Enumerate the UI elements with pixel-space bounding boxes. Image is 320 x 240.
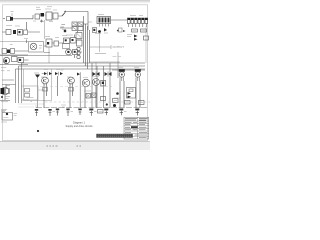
title text row5 marks [125,129,146,131]
resistor R21 [117,28,126,32]
capacitor C11 [11,49,15,54]
resistor R15 [43,88,48,92]
resistor R16 [69,88,74,92]
resistor R17 [6,30,11,35]
relay K1 box [29,42,44,53]
label text [95,32,108,35]
svg-text:Supply and drive circuits: Supply and drive circuits [65,125,93,128]
wire [117,52,119,70]
label text dash [6,85,10,87]
label R1 text [11,12,14,17]
label text below [1,121,7,123]
transistor TR9 [82,79,90,87]
label text [36,9,57,10]
diode D16 [128,96,132,99]
transistor TR6 [1,87,9,95]
title text row4 marks [125,126,147,128]
node J1 [98,30,101,33]
node J2 [113,104,116,107]
wire bus line 2 [19,65,146,67]
title block frame [124,117,149,139]
label P2 [53,111,56,113]
connector CN4 pin 4 [138,18,141,24]
capacitor C10 [76,33,82,39]
wire [99,33,101,52]
wire [66,11,88,13]
label text [33,20,53,23]
transistor TR11 [101,80,106,86]
wire transistor legs [44,76,96,108]
node J5 [37,130,39,132]
wire dashed mid rail [40,86,112,88]
capacitor C2 [53,13,58,19]
diode pair D20 [93,72,100,77]
connector CN4 pin 2 [131,18,134,24]
label K3 [134,66,139,68]
connector CN2 [77,40,83,46]
node arrow [62,13,65,17]
resistor R20 [93,28,97,33]
battery B1 box [2,113,13,121]
diode D17 [40,20,43,23]
label text [127,35,132,37]
title text row2 [125,121,147,123]
capacitor C1 [35,14,40,19]
pin hatch [100,24,109,27]
transistor TR10 [93,79,100,86]
label text [1,110,6,112]
label text [1,110,7,112]
capacitor C8 [129,89,133,92]
resistor R14 [98,110,104,114]
label row1 extra [36,6,52,8]
diode D14 [77,72,80,76]
wire right horizontal [112,70,145,78]
wire [18,104,44,107]
wire bottom rail [36,107,148,109]
label text [24,38,28,40]
resistor R5 [132,29,138,32]
transformer T1 [46,12,52,20]
diode D3 [18,58,24,63]
net label text [113,56,122,58]
title text row3 [125,124,145,126]
resistor R19 [71,38,77,44]
svg-text:Diagram 1: Diagram 1 [73,121,86,125]
capacitor C7 [92,93,97,98]
label K2 [118,66,123,68]
diode D12 [42,72,52,76]
label text [84,90,91,92]
wire bus line 3 [16,68,146,70]
label P4 [71,111,74,113]
resistor R6 [141,29,147,32]
label text [4,114,18,118]
label text [44,69,64,72]
capacitor C9 [18,30,23,36]
wire [2,80,16,85]
label TR8 [67,76,71,78]
label text [1,68,10,71]
node J8 [64,30,66,32]
relay K4 box [127,88,136,99]
wire [111,19,128,21]
transistor TR4 [3,57,9,63]
plug P1 [35,109,38,116]
resistor R12 [125,101,131,105]
connector CN4 pin 3 [135,18,138,24]
diode D18 [13,30,16,34]
resistor R2 [2,49,7,54]
diode D15 [128,92,132,95]
diode D8 [134,38,138,41]
pin 3 [77,55,80,58]
wire dashed rail [45,101,150,103]
diode pair D21 [105,72,112,77]
node J7 [1,96,3,98]
diode D7 [134,35,138,38]
wire [0,41,28,43]
plug P4 [66,109,69,117]
diode D13 [55,72,63,76]
node J6 [106,103,108,105]
page bottom edge [0,141,150,150]
resistor R4 [54,41,59,46]
wire [0,85,10,101]
wire [0,51,28,55]
footer text marks [47,145,82,147]
pin 1 [77,47,80,50]
diode D6 [104,28,107,32]
label text [61,105,66,107]
wire [90,45,120,70]
connector CN4 pin 6 [145,18,148,24]
node J3 [116,92,119,95]
wire right verticals down [80,63,110,108]
wire [2,22,40,32]
wire [26,40,28,44]
plug P5 [78,109,81,116]
plug P2 [48,109,51,116]
label P8 [124,111,127,113]
connector CN4 pin 5 [142,18,145,24]
diode D4 [73,50,78,55]
wire right edge drop [145,27,147,64]
resistor R11 [113,99,119,103]
label text [6,25,20,28]
relay K3 [135,69,141,81]
title text row6 marks [125,131,147,133]
enclosure box [24,69,52,101]
wire [0,53,72,56]
title text row7 marks [125,135,147,137]
wire [0,60,29,65]
resistor R10 [101,97,106,101]
label text [10,44,13,46]
relay K2 [119,69,125,81]
resistor R13 [139,101,145,105]
transistor TR8 [68,77,75,84]
wire bus verticals [84,16,90,69]
transistor TR1 [10,17,13,21]
label text [83,77,99,78]
resistor R7 [25,89,30,93]
title block row lines [124,121,149,136]
label text inside K1 [39,46,42,49]
page bottom line [0,140,150,142]
label CN4 [130,15,143,17]
capacitor C3 [46,39,52,63]
pin hatch [129,24,147,28]
wire [37,78,39,108]
label text [39,89,45,91]
wire [60,12,88,33]
stamp strip [96,134,133,138]
transistor TR3 [7,50,10,54]
transistor TR7 [42,77,49,84]
label text [22,100,32,102]
label text small [35,106,38,108]
label text [1,97,34,102]
plug P8 [119,109,123,116]
enclosure box 2 [22,86,39,100]
label text [66,34,73,36]
label text [45,36,67,38]
wire [13,18,33,20]
wire bus line 1 [22,62,146,64]
drawing frame border [3,5,148,141]
label text [114,97,121,99]
resistor R18 [24,30,28,35]
title text row1 [125,119,148,121]
wire bus left verticals [16,63,22,103]
wire [33,15,62,19]
motor M1 [30,43,37,50]
wire relay legs [120,81,140,108]
connector CN3 [97,17,111,24]
label TR7 [41,76,45,78]
transistor TR6 body [1,88,5,94]
title text row4 dark cell [131,126,138,128]
diode D9 label [34,72,39,74]
node J4 [6,113,8,115]
wire vertical link [44,20,46,39]
plug P7 [104,109,108,116]
rectifier bridge D5 [72,22,83,31]
title block col line [137,117,139,139]
label text [61,25,66,30]
pin 2 [77,51,80,54]
resistor R3 [12,57,18,62]
label text [60,25,65,28]
capacitor C5 [144,36,149,40]
plug P3 [56,109,59,116]
op-amp U1 [63,44,70,49]
capacitor C6 [86,94,91,99]
resistor R8 [25,94,30,98]
transistor TR5 [66,49,72,55]
plug P6 [89,109,93,116]
wire [44,35,82,59]
plug P9 [135,109,139,116]
stamp strip texture [98,135,131,137]
capacitor C4 [64,38,70,44]
label text [88,21,92,23]
diode D9 [35,75,40,79]
diode D2 [5,60,8,63]
svg-text:OUTPUT: OUTPUT [113,45,125,49]
resistor R1 [3,17,11,21]
connector CN4 pin 1 [128,18,131,24]
label P6 [94,111,97,113]
resistor R9 [6,89,10,94]
label CN3 [98,14,104,16]
diode D1 [41,13,45,17]
